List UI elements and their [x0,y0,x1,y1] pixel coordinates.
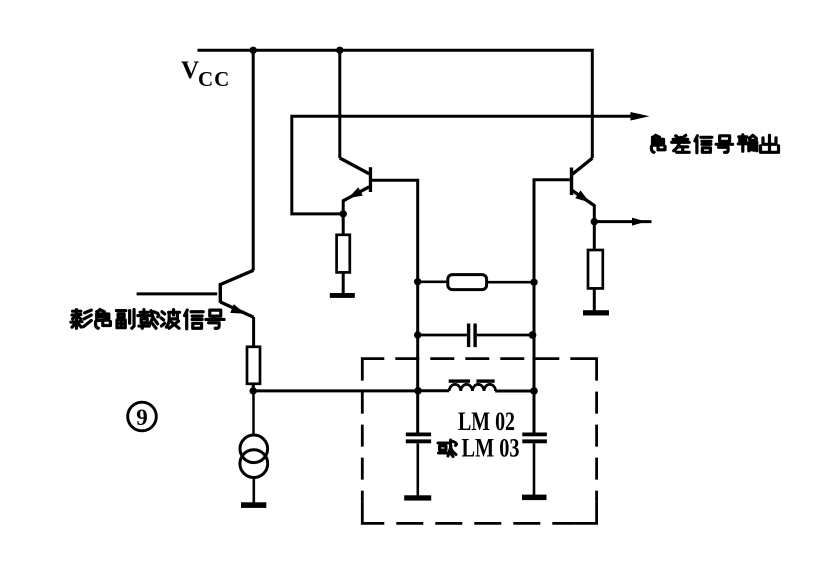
label 彩色副载波信号 [71,310,91,329]
transistor Q1 emitter slant [220,302,253,317]
transistor Q2 collector slant [340,158,369,174]
ground under R3 [583,310,609,315]
wire Q2 collector to Vcc [338,50,341,158]
wire current source to ground [253,478,256,504]
inductor L1 core bar right [476,379,494,382]
resistor R1 (Q1 emitter) [247,347,260,384]
svg-text:9: 9 [136,405,148,430]
wire Q2 base to tank left vertical [372,180,418,433]
inductor L1 core bar left [449,379,470,382]
inductor L1 coil [449,384,495,391]
transistor Q2 emitter arrow [346,187,363,202]
wire R3 to ground [593,288,596,311]
current source I1 circle lower [240,450,268,478]
wire Q3 emitter to R3 [593,222,596,250]
wire Vcc top rail [198,50,593,158]
transistor Q3 emitter slant [572,190,595,205]
wire R2 to ground [342,272,345,293]
wire Q2 emitter to R2 [342,214,345,235]
wire R1 to node [252,384,255,392]
wire lower output [594,220,651,223]
ground under C2 [404,495,431,500]
wire Q1 base input [137,292,218,295]
capacitor C2 plates [406,433,431,437]
resistor R2 (Q2 emitter) [337,235,350,273]
dashed box LM02/LM03 module bottom edge [384,522,574,525]
current source I1 circle upper [240,435,268,463]
node junction dot Q3 emitter [591,218,598,225]
node junction dot Vcc/Q1 collector [250,47,257,54]
transistor Q3 collector slant [571,158,592,175]
dashed box LM02/LM03 module left edge [361,381,364,502]
wire node to tank left [253,389,418,392]
dashed box LM02/LM03 module corners [362,359,596,524]
wire R4 left lead [418,280,448,283]
wire Q1 emitter down [252,317,255,347]
arrow lower output [632,218,646,226]
wire Q2 emitter down [342,200,345,216]
transistor Q3 base bar [570,168,573,196]
transistor Q1 emitter arrow [230,304,247,318]
wire output rail to arrow (upper output) [292,116,634,214]
node junction dot R4 right [530,279,537,286]
node junction dot C1 left [414,331,421,338]
transistor Q2 base bar [369,167,372,192]
arrow upper output [631,112,650,121]
capacitor C3 plates [522,433,547,437]
wire L1 left lead [418,389,450,392]
node junction dot C1 right [529,331,537,339]
transistor Q3 emitter arrow [575,190,592,206]
node junction dot Vcc/Q2 collector [336,47,343,54]
wire C3 to ground [533,443,536,495]
node junction dot R4 left [414,278,421,285]
dashed box LM02/LM03 module right edge [595,381,598,502]
dashed box LM02/LM03 module top edge [384,357,574,360]
resistor R4 (horizontal) [448,275,487,290]
wire C1 left lead [418,334,467,337]
wire Q3 base to tank right vertical [534,180,570,433]
svg-text:LM 03: LM 03 [462,434,520,463]
node junction dot L1 left [414,387,422,395]
resistor R3 (Q3 emitter) [588,250,603,288]
wire Q1 collector to Vcc [252,50,255,270]
svg-text:V: V [181,57,199,84]
wire node to current source [252,391,255,435]
wire C1 right lead [477,334,534,337]
transistor Q2 emitter slant [343,187,369,201]
node junction dot R1/current source/tank feed [250,387,257,394]
wire R4 right lead [487,281,534,284]
label circled 9 [128,402,157,431]
ground under C3 [522,495,547,501]
label 色差信号输出 [651,135,665,152]
ground under R2 [330,293,355,298]
label 或 (or) [438,440,457,457]
wire L1 right lead [495,390,534,393]
transistor Q1 collector slant [220,270,253,284]
svg-text:LM 02: LM 02 [458,407,515,436]
transistor Q1 base bar [219,283,222,303]
node junction dot L1 right [530,387,538,395]
wire C2 to ground [416,443,419,496]
capacitor C1 plates [467,324,470,348]
svg-text:CC: CC [198,67,230,91]
ground under current source [241,502,266,508]
wire Q3 emitter down [593,205,596,223]
node junction dot Q2 emitter [340,210,347,217]
